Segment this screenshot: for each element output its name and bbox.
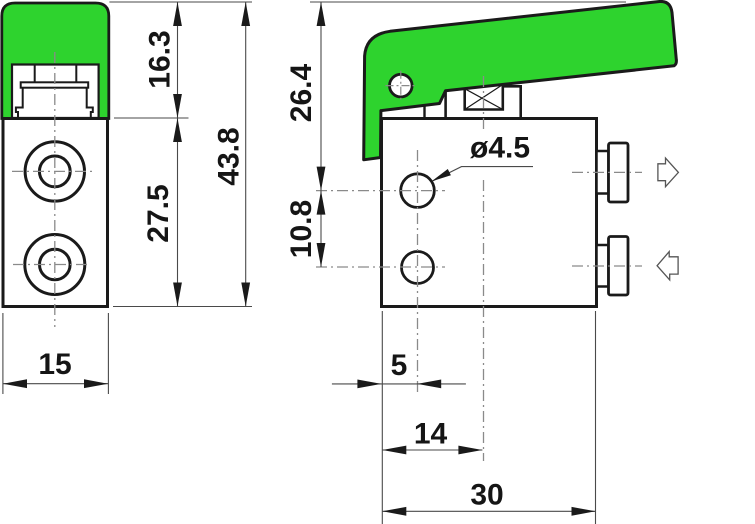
valve body (side view) xyxy=(382,119,597,307)
svg-text:16.3: 16.3 xyxy=(144,30,177,88)
step block right of plunger xyxy=(504,86,521,117)
dimension line 30 xyxy=(382,510,595,512)
dimension line 26.4 xyxy=(320,2,322,191)
arrows 43.8 xyxy=(241,2,250,26)
centerline lower hole horizontal (side) xyxy=(316,266,445,268)
extension line top (front) xyxy=(109,1,252,3)
dimension line 43.8 xyxy=(245,2,247,307)
valve body (front view) xyxy=(3,119,108,307)
extension line body bottom (front) xyxy=(113,306,252,308)
arrows 5 (outside) xyxy=(357,380,381,389)
svg-text:30: 30 xyxy=(470,479,503,512)
extension line top (side) xyxy=(310,1,626,3)
centerline vertical hole axis (side) xyxy=(417,150,419,396)
arrows 10.8 xyxy=(317,191,326,215)
arrows 16.3 xyxy=(173,2,182,26)
dimension line 14 xyxy=(382,449,482,451)
upper port circle (front) xyxy=(25,142,84,201)
centerline lower fitting xyxy=(572,265,642,267)
dimension line 27.5 xyxy=(177,118,179,307)
centerline upper hole (front) xyxy=(12,170,92,172)
lower hole (side) xyxy=(402,252,434,284)
flow arrow in (left) xyxy=(657,252,678,280)
dimension line 15 xyxy=(3,383,108,385)
lower fitting neck xyxy=(597,245,609,287)
arrows 26.4 xyxy=(317,2,326,26)
dimension line 5 xyxy=(332,383,466,385)
svg-text:5: 5 xyxy=(391,349,408,382)
actuator wall xyxy=(444,89,447,119)
extension line left bottom (side) xyxy=(381,311,383,524)
svg-text:10.8: 10.8 xyxy=(285,200,318,258)
green lever xyxy=(364,1,677,159)
centerline upper fitting xyxy=(572,171,642,173)
arrows 15 xyxy=(3,379,27,388)
extension line right bottom (side) xyxy=(595,311,597,524)
arrows 14 xyxy=(382,446,406,455)
centerline vertical valve axis (side) xyxy=(483,76,485,461)
arrows 30 xyxy=(382,507,406,516)
pivot crosshair xyxy=(386,71,417,101)
lower port circle (front) xyxy=(25,235,85,295)
dimension line 10.8 xyxy=(320,191,322,267)
extension line cap bottom (front) xyxy=(114,117,189,119)
plunger internals (front view) xyxy=(16,65,93,118)
centerline upper hole horizontal (side) xyxy=(316,190,445,192)
upper hole (side) xyxy=(401,174,435,208)
upper fitting cap xyxy=(609,143,629,202)
svg-text:27.5: 27.5 xyxy=(142,184,175,242)
actuator stub left xyxy=(423,105,425,119)
plunger box with X xyxy=(465,85,503,110)
svg-text:ø4.5: ø4.5 xyxy=(470,132,530,165)
lower fitting cap xyxy=(609,237,629,296)
centerline lower hole (front) xyxy=(13,264,90,266)
svg-text:15: 15 xyxy=(38,348,71,381)
upper fitting neck xyxy=(597,151,609,194)
leader arrowhead xyxy=(432,169,451,181)
extension line left bottom (front) xyxy=(2,313,4,394)
svg-text:14: 14 xyxy=(414,418,448,451)
arrows 27.5 xyxy=(173,118,182,142)
flow arrow out (right) xyxy=(658,158,679,187)
svg-text:26.4: 26.4 xyxy=(285,63,318,122)
dimension line 16.3 xyxy=(177,2,179,118)
lever pivot hole xyxy=(390,74,413,97)
green cap (front view) xyxy=(2,3,109,119)
extension line right bottom (front) xyxy=(107,313,109,394)
svg-text:43.8: 43.8 xyxy=(213,127,246,185)
cap window cutout xyxy=(12,65,99,119)
leader line for diameter xyxy=(433,167,533,181)
centerline vertical (front) xyxy=(54,52,56,327)
